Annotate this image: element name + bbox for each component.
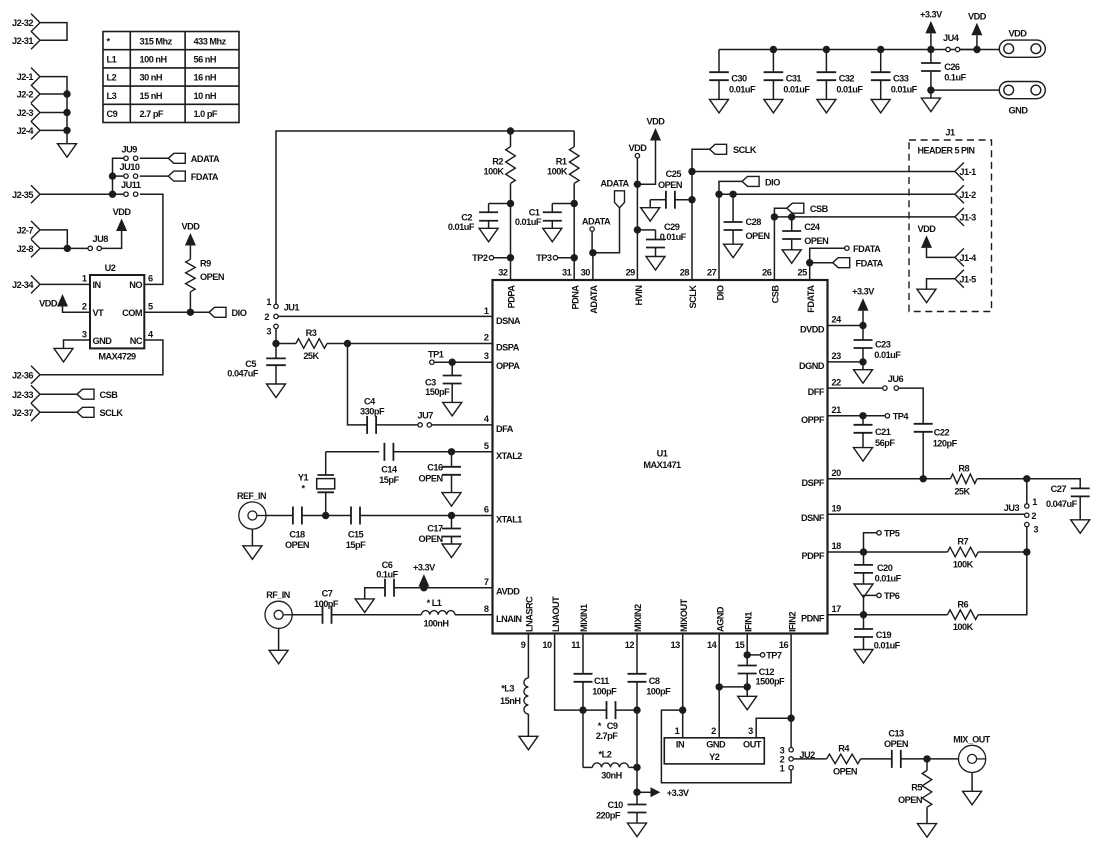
- svg-text:C8: C8: [649, 676, 660, 686]
- ground at REF_IN: [243, 529, 262, 559]
- resistor R5 OPEN: [898, 759, 932, 824]
- node CSB tag (pin26): [787, 203, 829, 214]
- capacitor C1 0.01uF: [515, 204, 574, 229]
- svg-text:100K: 100K: [547, 167, 568, 177]
- junction TP1/C3: [449, 359, 456, 366]
- wire MIXOUT to JU2-1: [661, 710, 791, 783]
- jumper JU9: [122, 144, 138, 160]
- svg-text:2: 2: [264, 312, 269, 322]
- wire U2 COM to DIO: [144, 311, 209, 313]
- junction R2/C2: [507, 200, 514, 207]
- jumper JU4: [943, 33, 960, 52]
- svg-text:DSPA: DSPA: [496, 343, 520, 353]
- junction C8/C9: [633, 706, 640, 713]
- svg-text:SCLK: SCLK: [100, 408, 124, 418]
- svg-text:C29: C29: [664, 222, 680, 232]
- wire to U1 ADATA pin 30: [592, 253, 594, 280]
- capacitor C4 330pF: [360, 396, 385, 434]
- svg-text:J2-36: J2-36: [12, 370, 33, 380]
- svg-text:JU6: JU6: [888, 374, 904, 384]
- capacitor C18 OPEN: [285, 507, 310, 550]
- resistor R6 100K: [948, 599, 979, 632]
- svg-text:C5: C5: [245, 359, 256, 369]
- connector J2-36: [12, 366, 40, 384]
- svg-text:GND: GND: [93, 336, 113, 346]
- svg-text:R7: R7: [957, 537, 968, 547]
- svg-text:OPEN: OPEN: [898, 795, 923, 805]
- svg-text:PDPA: PDPA: [507, 285, 517, 309]
- svg-text:PDNA: PDNA: [570, 285, 580, 310]
- svg-text:2: 2: [82, 302, 87, 312]
- svg-text:1: 1: [484, 306, 489, 316]
- junction L2/MIXIN2 net: [633, 764, 640, 771]
- svg-text:DFF: DFF: [808, 387, 825, 397]
- ground at C27: [1071, 520, 1090, 534]
- ground at C12: [738, 687, 757, 710]
- node FDATA tag (pin25): [833, 258, 884, 269]
- junction DIO/C28: [729, 191, 736, 198]
- svg-text:C30: C30: [731, 74, 747, 84]
- svg-text:L2: L2: [107, 73, 117, 83]
- wire SCLK net to J1-1: [692, 171, 955, 173]
- node ADATA flag tag (pin30): [600, 179, 629, 208]
- svg-text:17: 17: [832, 604, 842, 614]
- junction J2-8: [64, 245, 71, 252]
- svg-text:MAX1471: MAX1471: [643, 460, 681, 470]
- junction IFIN2/Y2 OUT: [787, 715, 794, 722]
- svg-text:10: 10: [542, 640, 552, 650]
- svg-text:28: 28: [680, 268, 690, 278]
- svg-text:C17: C17: [427, 523, 443, 533]
- capacitor C31 0.01uF: [764, 50, 811, 100]
- svg-text:JU3: JU3: [1004, 503, 1020, 513]
- junction XTAL2/C16: [448, 448, 455, 455]
- svg-text:HEADER 5 PIN: HEADER 5 PIN: [918, 146, 975, 156]
- capacitor C19 0.01uF: [854, 615, 901, 651]
- capacitor C10 220pF: [596, 792, 647, 823]
- svg-text:DSNA: DSNA: [496, 316, 521, 326]
- svg-text:OPEN: OPEN: [804, 236, 829, 246]
- junction C11/C9/L2: [579, 706, 586, 713]
- wire DSNA top rail (JU1-1 up and over to R1/R2): [276, 131, 574, 304]
- wire JU11 to U2 pin NO: [140, 194, 163, 284]
- svg-text:C3: C3: [425, 377, 436, 387]
- wire R3 to U1 DSPA pin 2: [327, 343, 493, 345]
- capacitor C8 100pF: [628, 634, 672, 711]
- jumper JU7: [418, 410, 434, 427]
- svg-text:30nH: 30nH: [601, 771, 622, 781]
- node DIO tag (pin27): [742, 176, 780, 187]
- svg-text:LNASRC: LNASRC: [525, 596, 535, 632]
- svg-text:MIXIN2: MIXIN2: [633, 604, 643, 632]
- svg-text:J2-2: J2-2: [17, 90, 34, 100]
- svg-text:DVDD: DVDD: [800, 325, 825, 335]
- power +3.3V at AVDD: [413, 563, 436, 587]
- wire C26 to GND terminal: [931, 89, 999, 91]
- svg-text:C18: C18: [289, 529, 305, 539]
- junction C13/R5: [923, 755, 930, 762]
- svg-text:0.01uF: 0.01uF: [874, 640, 901, 650]
- svg-text:13: 13: [670, 640, 680, 650]
- svg-text:1.0 pF: 1.0 pF: [194, 109, 218, 119]
- svg-text:0.047uF: 0.047uF: [1046, 499, 1078, 509]
- svg-text:VDD: VDD: [1009, 29, 1028, 39]
- svg-text:ADATA: ADATA: [589, 285, 599, 314]
- svg-text:8: 8: [484, 604, 489, 614]
- svg-text:NC: NC: [130, 336, 143, 346]
- ground at C32: [817, 99, 836, 113]
- ground at C33: [871, 99, 890, 113]
- svg-text:C25: C25: [666, 169, 682, 179]
- wire J2-35 to bus: [40, 193, 111, 195]
- svg-text:DGND: DGND: [799, 361, 825, 371]
- svg-text:15 nH: 15 nH: [140, 91, 163, 101]
- capacitor C33 0.01uF: [871, 50, 918, 100]
- svg-text:L1: L1: [107, 55, 117, 65]
- wire J2-32 to J2-31 loop: [40, 23, 67, 41]
- svg-text:16 nH: 16 nH: [194, 73, 217, 83]
- analog switch U2 MAX4729: [82, 263, 154, 362]
- resistor R2 100K: [484, 131, 516, 204]
- wire JU2-2 to R4: [793, 758, 826, 760]
- svg-text:TP5: TP5: [884, 528, 900, 538]
- svg-text:OPEN: OPEN: [746, 231, 771, 241]
- test point TP4: [863, 411, 909, 421]
- connector REF_IN (SMA): [237, 491, 266, 529]
- wire TP2 to pin32 net: [494, 257, 511, 259]
- svg-text:J2-34: J2-34: [12, 280, 34, 290]
- capacitor C25 OPEN: [650, 169, 692, 209]
- svg-text:VDD: VDD: [181, 222, 200, 232]
- wire R4 to C13: [861, 758, 892, 760]
- svg-text:C14: C14: [381, 465, 398, 475]
- node ADATA tag (JU9): [168, 153, 220, 164]
- wire REF_IN to C18: [266, 515, 293, 517]
- ground at L3: [519, 736, 538, 750]
- jumper JU10: [120, 162, 140, 178]
- svg-text:JU1: JU1: [284, 303, 300, 313]
- power VDD at U2 VT: [39, 294, 68, 308]
- svg-text:100 nH: 100 nH: [140, 55, 168, 65]
- jumper JU2 (3-pin): [780, 746, 815, 774]
- svg-text:15pF: 15pF: [346, 540, 366, 550]
- svg-text:C6: C6: [382, 560, 393, 570]
- wire junction down to C4: [348, 344, 368, 425]
- svg-text:OPEN: OPEN: [200, 272, 225, 282]
- svg-text:1: 1: [266, 297, 271, 307]
- connector J1-2: [955, 185, 976, 203]
- svg-text:R3: R3: [306, 328, 317, 338]
- wire U2 NC to J2-36: [40, 340, 163, 375]
- svg-text:DSPF: DSPF: [801, 478, 824, 488]
- svg-text:100K: 100K: [953, 622, 974, 632]
- svg-text:TP3: TP3: [536, 253, 552, 263]
- wire MIXIN2 net down: [636, 710, 638, 792]
- test point TP7: [747, 651, 782, 661]
- power VDD at R9: [181, 222, 200, 246]
- svg-text:220pF: 220pF: [596, 811, 621, 821]
- wire C7 to L1: [332, 614, 422, 616]
- svg-text:SCLK: SCLK: [733, 145, 757, 155]
- svg-text:R2: R2: [492, 157, 503, 167]
- wire C4 to JU7: [376, 424, 418, 426]
- wire U1 IFIN2 pin 16 down: [790, 634, 792, 748]
- svg-text:DIO: DIO: [715, 285, 725, 300]
- svg-text:TP7: TP7: [766, 651, 782, 661]
- wire RF_IN to C7: [292, 614, 322, 616]
- wire U1 MIXOUT pin 13 to Y2 IN: [682, 634, 684, 738]
- filter Y2 (IN/GND/OUT): [664, 726, 764, 764]
- svg-text:2.7 pF: 2.7 pF: [140, 109, 164, 119]
- junction U2 COM / R9: [187, 309, 194, 316]
- wire U1 DSPF pin20 to R8: [828, 478, 951, 480]
- node VDD stub at HVIN: [628, 143, 647, 158]
- svg-text:NO: NO: [129, 280, 142, 290]
- svg-text:56 nH: 56 nH: [194, 55, 217, 65]
- svg-text:5: 5: [148, 302, 153, 312]
- svg-text:315 Mhz: 315 Mhz: [140, 36, 173, 46]
- svg-text:C16: C16: [427, 463, 443, 473]
- svg-text:C2: C2: [461, 212, 472, 222]
- ground at C6: [355, 599, 374, 613]
- wire JU1-3 down to C5/R3 node: [275, 329, 277, 344]
- svg-text:1500pF: 1500pF: [756, 677, 786, 687]
- svg-text:0.01uF: 0.01uF: [874, 350, 901, 360]
- svg-text:TP4: TP4: [893, 411, 910, 421]
- capacitor C16 OPEN: [419, 452, 461, 493]
- power VDD arrow (top right): [968, 11, 987, 49]
- svg-text:C31: C31: [786, 74, 802, 84]
- wire C13 to MIX_OUT: [901, 758, 959, 760]
- capacitor C24 OPEN: [782, 217, 829, 250]
- junction top rail / R2: [507, 127, 514, 134]
- wire JU8 to VDD: [101, 231, 121, 248]
- wire JU7 to U1 DFA pin 4: [431, 424, 492, 426]
- junction TP2: [507, 254, 514, 261]
- wire left bus JU9-JU11: [113, 158, 125, 194]
- ground at RF_IN: [269, 628, 288, 664]
- wire C9 node down to L2: [582, 710, 584, 767]
- svg-text:30 nH: 30 nH: [140, 73, 163, 83]
- junction XTAL1/C17: [448, 512, 455, 519]
- svg-text:DIO: DIO: [232, 308, 247, 318]
- svg-text:C11: C11: [594, 676, 609, 686]
- svg-text:TP1: TP1: [428, 350, 444, 360]
- capacitor C7 100pF: [314, 589, 339, 624]
- connector J2-7: [17, 221, 40, 239]
- svg-text:AVDD: AVDD: [496, 587, 520, 597]
- wire C14 to U1 XTAL2 pin 5: [393, 451, 492, 453]
- wire U1 PDPF pin18 to R7: [828, 551, 948, 553]
- svg-text:J1-5: J1-5: [959, 274, 976, 284]
- svg-text:PDNF: PDNF: [801, 614, 825, 624]
- svg-text:VDD: VDD: [968, 11, 987, 21]
- wire VDD arrow to HVIN: [637, 141, 655, 185]
- connector J1-3: [955, 208, 976, 226]
- svg-text:24: 24: [832, 315, 843, 325]
- svg-text:330pF: 330pF: [360, 407, 385, 417]
- junction PDPF/C20/TP5: [860, 548, 867, 555]
- junction Y1/XTAL1 net: [322, 512, 329, 519]
- resistor R3 25K: [276, 328, 327, 361]
- wire CSB tag to pin 26: [774, 208, 786, 280]
- svg-text:C28: C28: [746, 217, 762, 227]
- svg-text:29: 29: [626, 268, 636, 278]
- test point TP5: [864, 528, 900, 552]
- wire U2 GND to ground: [64, 340, 91, 348]
- ground at C31: [764, 99, 783, 113]
- svg-text:VDD: VDD: [628, 143, 647, 153]
- junction DSPF/C22: [920, 475, 927, 482]
- jumper JU1 (3-pin): [264, 297, 299, 336]
- svg-text:100K: 100K: [484, 167, 505, 177]
- svg-text:VDD: VDD: [647, 117, 666, 127]
- connector J2-37: [12, 403, 40, 421]
- junction TP3: [571, 254, 578, 261]
- wire J2-7/J2-8 loop to JU8: [40, 230, 88, 249]
- wire J2-37 to SCLK tag: [40, 411, 77, 413]
- power +3.3V at supply bus: [920, 9, 943, 49]
- svg-text:2.7pF: 2.7pF: [596, 731, 618, 741]
- test point TP2: [472, 253, 494, 263]
- svg-text:25K: 25K: [303, 351, 319, 361]
- junction CSB/J1-3: [771, 213, 778, 220]
- node CSB tag (J2-33): [77, 389, 118, 400]
- svg-text:Y1: Y1: [298, 473, 309, 483]
- power +3.3V at DVDD: [852, 287, 875, 326]
- wire J2-1..J2-4 common bus: [40, 77, 67, 144]
- wire C15 to U1 XTAL1 pin 6: [360, 515, 493, 517]
- svg-text:FDATA: FDATA: [856, 259, 884, 269]
- svg-text:J2-35: J2-35: [12, 190, 33, 200]
- svg-text:C23: C23: [875, 340, 891, 350]
- svg-text:3: 3: [1033, 525, 1038, 535]
- svg-text:C20: C20: [877, 563, 893, 573]
- svg-text:C32: C32: [839, 74, 855, 84]
- connector J2-2: [17, 85, 40, 103]
- svg-text:J1-2: J1-2: [959, 190, 976, 200]
- ground at C30: [710, 99, 729, 113]
- svg-text:2: 2: [711, 726, 716, 736]
- svg-text:L3: L3: [107, 91, 117, 101]
- svg-text:1: 1: [82, 274, 87, 284]
- svg-text:OPEN: OPEN: [419, 534, 444, 544]
- ground at C24: [782, 250, 801, 263]
- svg-text:56pF: 56pF: [875, 438, 895, 448]
- svg-text:0.1uF: 0.1uF: [944, 73, 966, 83]
- svg-text:OPEN: OPEN: [833, 767, 858, 777]
- table of component values (315/433 MHz): [103, 32, 239, 123]
- capacitor C2 0.01uF: [448, 204, 511, 233]
- svg-text:1: 1: [675, 726, 680, 736]
- test point TP6: [864, 591, 900, 615]
- wire J2-34 to U2 IN: [40, 283, 90, 285]
- svg-text:VDD: VDD: [113, 207, 132, 217]
- svg-text:C12: C12: [759, 667, 775, 677]
- inductor L1 100nH: [421, 598, 455, 629]
- connector MIX_OUT (SMA): [953, 734, 991, 772]
- capacitor C15 15pF: [346, 507, 366, 550]
- ground at MIX_OUT: [963, 773, 982, 805]
- connector J2-32: [12, 14, 40, 32]
- svg-text:TP6: TP6: [884, 591, 900, 601]
- ground at C17: [442, 544, 461, 558]
- junction DIO/J1-2: [715, 191, 722, 198]
- ground at C16: [442, 493, 461, 507]
- wire R7 to JU3-3 node: [978, 551, 1027, 553]
- svg-text:*L3: *L3: [501, 684, 514, 694]
- junction VDD/HVIN: [634, 181, 641, 188]
- ground at C28: [724, 244, 743, 258]
- svg-text:14: 14: [707, 640, 718, 650]
- junction J2-3 bus: [63, 109, 70, 116]
- junction +3.3V/C26: [927, 46, 934, 53]
- connector J2-31: [12, 31, 40, 49]
- junction C26/GND rail: [927, 86, 934, 93]
- ground at C5: [267, 384, 286, 398]
- capacitor C13 OPEN: [884, 729, 909, 768]
- ground at U2 GND: [54, 348, 73, 362]
- junction OPPF/C21: [859, 412, 866, 419]
- svg-text:100K: 100K: [953, 560, 974, 570]
- wire C18 to Y1 node: [302, 515, 351, 517]
- capacitor C11 100pF: [574, 634, 618, 711]
- svg-text:R1: R1: [556, 157, 567, 167]
- ground at C2: [479, 228, 498, 242]
- connector J1-1: [955, 163, 976, 181]
- connector J2-34: [12, 275, 40, 293]
- junction C12/AGND: [744, 683, 751, 690]
- resistor R9 OPEN: [186, 246, 225, 313]
- svg-text:0.01uF: 0.01uF: [729, 85, 756, 95]
- svg-text:OPEN: OPEN: [285, 540, 310, 550]
- svg-text:ADATA: ADATA: [582, 217, 611, 227]
- ground at C19: [854, 650, 873, 664]
- svg-text:OPPF: OPPF: [801, 415, 825, 425]
- svg-text:C10: C10: [607, 800, 623, 810]
- svg-text:GND: GND: [1009, 106, 1029, 116]
- crystal Y1: [298, 452, 379, 516]
- capacitor C32 0.01uF: [817, 50, 864, 100]
- svg-text:0.01uF: 0.01uF: [783, 85, 810, 95]
- svg-text:C22: C22: [934, 427, 950, 437]
- junction SCLK/J1-1: [688, 168, 695, 175]
- capacitor C21 56pF: [854, 416, 896, 448]
- capacitor C30 0.01uF: [709, 50, 756, 100]
- svg-text:100nH: 100nH: [423, 619, 449, 629]
- junction R3/C4: [344, 340, 351, 347]
- svg-text:R4: R4: [838, 744, 850, 754]
- connector RF_IN (SMA): [265, 590, 292, 628]
- wire TP3 to pin31 net: [558, 257, 575, 259]
- wire U1 LNASRC pin 9 down: [527, 634, 529, 679]
- wire R2 to U1 PDPA pin 32: [510, 204, 512, 281]
- svg-text:23: 23: [832, 351, 842, 361]
- wire IFIN2 to Y2 OUT: [756, 718, 791, 738]
- svg-text:3: 3: [748, 726, 753, 736]
- inductor L2 30nH: [583, 750, 637, 781]
- svg-text:J1: J1: [945, 128, 955, 138]
- capacitor C6 0.1uF: [365, 560, 399, 599]
- svg-text:2: 2: [484, 333, 489, 343]
- svg-text:C15: C15: [348, 529, 364, 539]
- junction +3.3V/AVDD: [420, 584, 427, 591]
- svg-text:C33: C33: [893, 74, 909, 84]
- svg-text:J2-3: J2-3: [17, 108, 34, 118]
- junction MIXOUT/JU2 wire: [679, 706, 686, 713]
- svg-text:REF_IN: REF_IN: [237, 491, 266, 501]
- svg-text:150pF: 150pF: [425, 387, 450, 397]
